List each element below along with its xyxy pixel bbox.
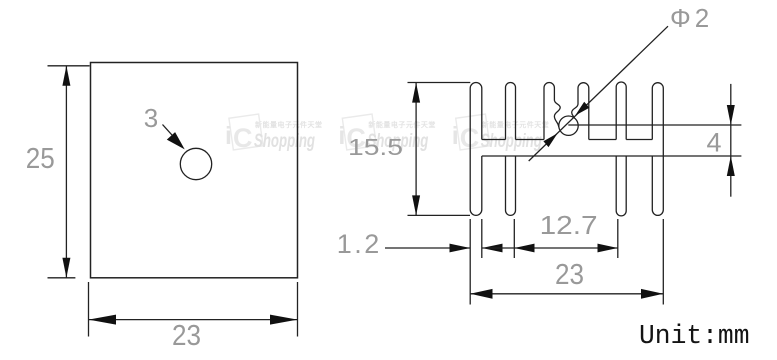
svg-text:25: 25 [26,143,55,175]
svg-text:3: 3 [144,103,158,133]
slot bottom between fin5 and fin6 [626,139,652,141]
watermark tiles [225,114,549,153]
dim 25 extension top [48,65,90,67]
dim 4 arrow down [727,105,735,125]
dim 1.2 arrow left [450,244,471,253]
dim 4 arrow up [727,156,735,176]
dim 25 arrow down [62,258,70,278]
fin 2 [506,83,516,216]
dim 1.2 line left part [385,247,470,249]
dim 25 extension bottom [48,277,76,279]
svg-text:i: i [338,122,345,150]
dim 12.7 ext right [617,219,619,258]
hole center line [568,124,741,126]
slot bottom between fin1 and fin2 [482,139,506,141]
dim 25 line [65,66,67,278]
left view plate [91,63,298,278]
dim 12.7 line [514,247,618,249]
dim 25 arrow up [62,66,70,86]
fin 5 [616,82,626,216]
dim 23 left-view arrow right [270,315,298,325]
web bottom line [482,155,742,157]
dim 23 right-view arrow left [470,289,492,299]
dim 1.2 arrow right with tail [482,244,515,253]
fin 4 with keyhole right edge [572,83,589,140]
svg-text:23: 23 [555,259,584,291]
dim 23 right-view arrow right [641,289,663,299]
dim 1.2 ext right [481,219,483,258]
dim 15.5 line [415,83,417,216]
svg-text:Shopping: Shopping [481,130,542,152]
dim 23 left-view line [89,319,298,321]
dim 23 left-view arrow left [89,315,117,325]
dim 15.5 arrow up [412,83,420,103]
svg-text:C: C [233,123,253,153]
slot bottom between fin2 and fin3 [516,139,545,141]
svg-text:Shopping: Shopping [254,130,315,152]
svg-text:C: C [460,123,480,153]
svg-text:新能量电子元件天堂: 新能量电子元件天堂 [368,120,436,129]
hole 3mm [180,148,211,179]
svg-text:i: i [225,122,232,150]
svg-text:4: 4 [706,128,721,158]
svg-text:23: 23 [172,320,201,352]
dim 23 right-view ext right [662,219,664,305]
svg-text:新能量电子元件天堂: 新能量电子元件天堂 [255,120,323,129]
svg-text:15.5: 15.5 [348,134,403,160]
dim 15.5 ext bottom [408,214,471,216]
leader arrow lower [543,133,557,147]
dim 23 left-view ext right [297,282,299,337]
dim 12.7 arrow left [514,244,534,253]
svg-text:1.2: 1.2 [337,229,382,259]
slot bottom between fin4 and fin5 [589,139,616,141]
fin 3 with keyhole left edge [544,82,560,139]
dim 15.5 ext top [408,82,471,84]
svg-text:12.7: 12.7 [540,210,598,240]
dim 23 right-view line [470,293,663,295]
dim 23 left-view ext left [88,282,90,337]
leader arrow to hole [163,125,185,150]
hole 2mm [559,116,578,135]
fin 1 [470,83,482,216]
dim 23 right-view ext left [469,219,471,305]
leader arrow upper [575,102,589,116]
leader line phi2 [529,26,668,161]
dim 4 line [730,84,732,197]
dim 12.7 ext left [513,219,515,258]
dim 12.7 arrow right [598,244,618,253]
svg-text:Φ2: Φ2 [670,3,713,33]
svg-text:i: i [452,122,459,150]
svg-text:Unit:mm: Unit:mm [639,322,750,352]
fin 6 [652,83,663,216]
dim 15.5 arrow down [412,195,420,215]
